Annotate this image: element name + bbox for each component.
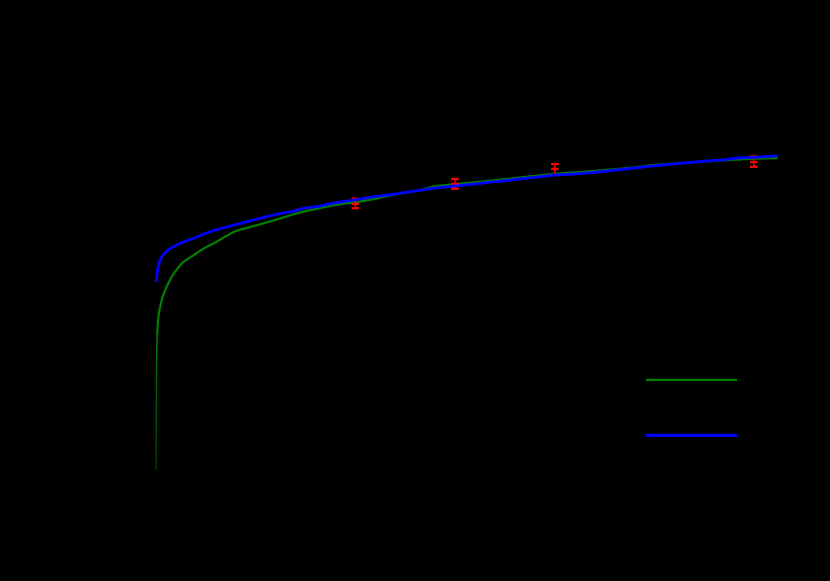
red error bar data point E2: [451, 179, 459, 189]
red error bar data point E3: [551, 164, 559, 175]
legend sample line green: [646, 379, 737, 381]
red error bar data point E4: [750, 156, 758, 167]
blue curve: [156, 156, 778, 282]
green curve asymptotic vertical tail: [156, 335, 157, 470]
legend sample line blue: [646, 434, 737, 437]
green curve: [157, 158, 777, 335]
red error bar data point E1: [352, 199, 360, 209]
